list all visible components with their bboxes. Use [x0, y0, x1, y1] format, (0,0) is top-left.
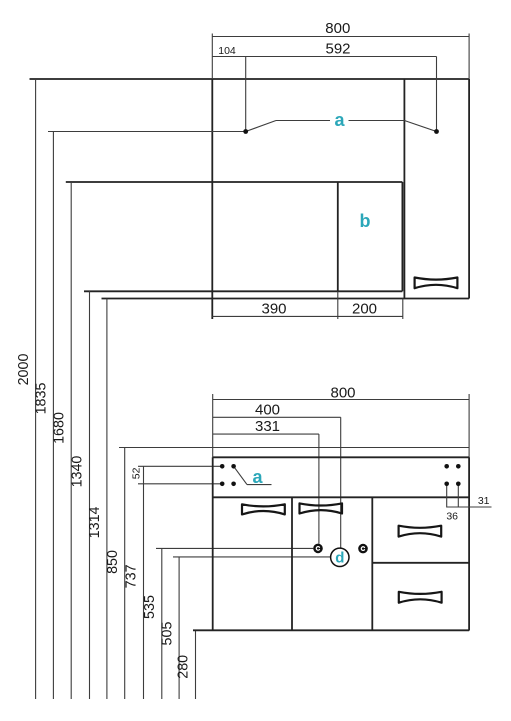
850 connector / countertop top line — [119, 447, 469, 449]
a leader left horizontal — [276, 120, 330, 122]
svg-text:b: b — [360, 211, 371, 231]
svg-text:331: 331 — [255, 418, 280, 435]
lower cabinet left edge — [212, 457, 214, 630]
svg-text:400: 400 — [255, 401, 280, 418]
lower cabinet dim 331 line — [213, 433, 319, 435]
svg-text:d: d — [335, 550, 344, 567]
svg-text:280: 280 — [176, 655, 192, 679]
dim 800 top line — [212, 36, 469, 38]
left stack vertical 1340 — [89, 291, 91, 699]
left stack vertical 1314 — [106, 299, 108, 700]
left stack vertical 850 — [124, 448, 126, 700]
dim 36/31 line — [447, 506, 492, 508]
hinge dot a left (top cabinet) — [243, 129, 248, 134]
svg-text:850: 850 — [105, 550, 121, 574]
left stack vertical 280 — [195, 631, 197, 700]
1835 connector — [48, 131, 246, 133]
a leader right horizontal — [349, 120, 405, 122]
lower hinge dot right-top-1 — [444, 464, 449, 469]
a leader right diagonal — [404, 121, 436, 132]
dim 592 right extension to right hinge dot — [436, 57, 438, 132]
dim 800 top right extension — [468, 34, 470, 80]
right hinge drop line 1 — [446, 484, 448, 508]
lower cabinet top edge — [213, 456, 469, 458]
400 extension down to d — [340, 417, 342, 548]
top cabinet divider — [403, 79, 405, 299]
left stack vertical 535 — [161, 548, 163, 699]
top cabinet right edge — [468, 79, 470, 299]
drawer divider — [372, 562, 469, 564]
a leader left diagonal — [246, 121, 276, 132]
left stack vertical 1835 — [52, 131, 54, 699]
c circle right — [358, 544, 368, 554]
svg-text:800: 800 — [325, 20, 350, 37]
dim 104/592 line — [212, 56, 436, 58]
lower dim right extension — [468, 394, 470, 457]
lower hinge dot left-top-1 — [220, 464, 225, 469]
svg-text:104: 104 — [218, 45, 236, 57]
left stack vertical 1680 — [70, 182, 72, 699]
lower cabinet bottom + 280 connector — [193, 629, 469, 631]
lower cabinet band bottom — [213, 496, 469, 498]
svg-text:505: 505 — [159, 622, 175, 646]
svg-text:52: 52 — [130, 467, 142, 479]
lower hinge dot right-bot-2 — [456, 482, 461, 487]
handle drawer 2 — [399, 592, 442, 603]
svg-text:200: 200 — [352, 300, 377, 317]
lower dim left extension — [212, 394, 214, 457]
d circle — [331, 548, 349, 566]
svg-text:1340: 1340 — [70, 456, 86, 488]
svg-text:2000: 2000 — [16, 354, 32, 386]
box b top edge + 1680 connector — [66, 181, 403, 183]
svg-text:1314: 1314 — [87, 506, 103, 538]
svg-text:592: 592 — [325, 41, 350, 58]
lower cabinet dim 800 line — [213, 399, 469, 401]
svg-text:a: a — [252, 467, 263, 487]
right hinge drop line 2 — [457, 484, 459, 508]
left stack vertical 505 — [178, 557, 180, 699]
svg-text:1835: 1835 — [34, 383, 50, 415]
svg-text:390: 390 — [261, 300, 286, 317]
top cabinet top edge + 2000 connector — [30, 78, 470, 80]
handle top cabinet right portion — [415, 278, 458, 289]
handle drawer 1 — [399, 526, 442, 537]
dim 390/200 right extension — [402, 299, 404, 320]
52 top connector to hinge dot — [138, 465, 222, 467]
box b divider — [337, 182, 339, 291]
lower hinge dot right-top-2 — [456, 464, 461, 469]
lower door swing horizontal — [247, 484, 272, 486]
dim 390/200 line — [212, 315, 402, 317]
lower door swing diagonal — [234, 466, 247, 484]
lower cabinet door divider 1 — [291, 497, 293, 630]
dim 104/592 mid extension to left hinge dot — [245, 57, 247, 132]
hinge dot a right (top cabinet) — [434, 129, 439, 134]
lower hinge dot left-bot-1 — [220, 482, 225, 487]
lower cabinet dim 400 line — [213, 416, 341, 418]
handle lower middle door — [300, 503, 343, 513]
svg-text:1680: 1680 — [51, 412, 67, 444]
331 extension down to c — [318, 434, 320, 544]
52 bottom / 737 connector to hinge dot — [138, 483, 222, 485]
dim 800 top left extension — [211, 34, 213, 80]
lower cabinet door/drawer divider — [371, 497, 373, 630]
box b right edge — [401, 182, 403, 291]
svg-text:800: 800 — [330, 384, 355, 401]
lower hinge dot left-bot-2 — [231, 482, 236, 487]
lower hinge dot left-top-2 — [231, 464, 236, 469]
svg-text:31: 31 — [478, 495, 490, 507]
svg-text:36: 36 — [446, 511, 458, 523]
handle lower left door — [242, 504, 285, 514]
svg-text:535: 535 — [142, 595, 158, 619]
dim 390/200 mid extension — [337, 291, 339, 319]
top cabinet left edge / 390-200 extension — [211, 79, 213, 319]
lower hinge dot right-bot-1 — [444, 482, 449, 487]
505 connector to d circle — [173, 556, 331, 558]
svg-text:a: a — [334, 110, 345, 130]
left stack vertical 2000 — [35, 79, 37, 699]
lower cabinet right edge — [468, 457, 470, 630]
svg-text:737: 737 — [124, 564, 140, 588]
left stack vertical 737/52 — [143, 466, 145, 699]
535 connector to c circle — [156, 547, 313, 549]
c circle left — [313, 544, 323, 554]
top cabinet right portion bottom + 1314 connector — [102, 298, 470, 300]
top cabinet left portion bottom + 1340 connector — [84, 290, 402, 292]
